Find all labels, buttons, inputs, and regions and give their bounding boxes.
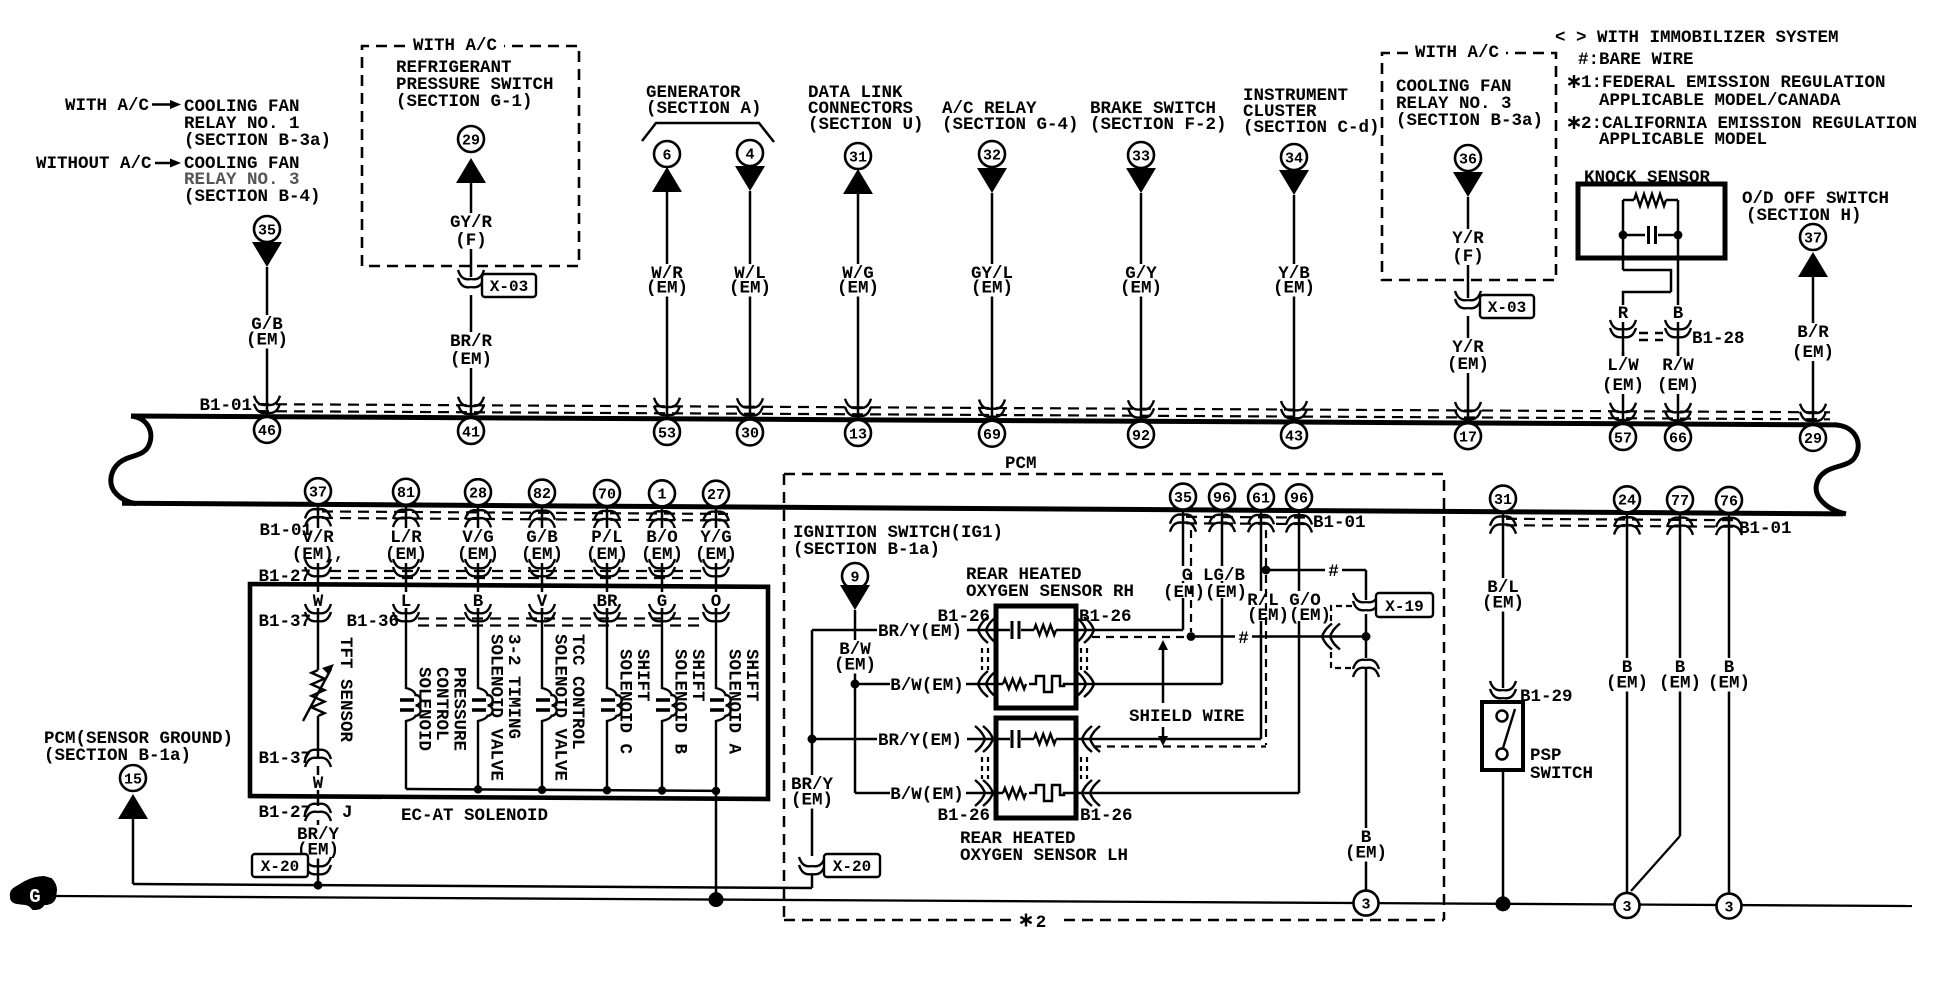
wire ground line bbox=[56, 896, 1912, 906]
svg-text:X-03: X-03 bbox=[490, 278, 528, 296]
splice LH top right bbox=[1082, 726, 1100, 752]
connector box X-20 left bbox=[252, 854, 308, 877]
svg-text:37: 37 bbox=[1804, 230, 1822, 247]
pin circle 27 lower bus bbox=[703, 481, 729, 507]
EC-AT solenoid box bbox=[250, 584, 768, 799]
resistor oxygen LH top bbox=[1034, 734, 1056, 744]
arrow from sensor ground bbox=[118, 794, 148, 819]
junction dot solenoid bus x607 bbox=[603, 786, 611, 794]
wire harness curl left end bbox=[111, 416, 151, 504]
ground symbol G body bbox=[11, 877, 56, 909]
splice below pin 82 bbox=[529, 511, 555, 528]
legend star 1 bbox=[1568, 75, 1579, 88]
wire GY/L A/C relay to bus pin 69 bbox=[991, 193, 994, 420]
splice row B1-27 dashes bbox=[330, 571, 704, 578]
svg-text:(SECTION B-1a): (SECTION B-1a) bbox=[793, 540, 940, 560]
wire RH top to pin G bbox=[1092, 629, 1183, 632]
dashed hook above X-19 splice bbox=[1331, 606, 1352, 621]
svg-text:(EM): (EM) bbox=[1602, 376, 1644, 396]
splice pin 92 bbox=[1128, 400, 1154, 417]
svg-text:EC-AT SOLENOID: EC-AT SOLENOID bbox=[401, 806, 548, 826]
wire into box at 607 bbox=[606, 583, 609, 612]
svg-text:(EM): (EM) bbox=[1606, 674, 1648, 694]
solenoid coil shift solenoid B bbox=[662, 608, 677, 791]
wire BR/Y left vertical bbox=[811, 630, 814, 856]
svg-text:35: 35 bbox=[258, 222, 276, 239]
capacitor oxygen RH bbox=[1011, 621, 1014, 639]
label GY/R (F) bbox=[447, 213, 495, 249]
svg-text:(EM): (EM) bbox=[646, 279, 688, 299]
svg-text:B1-27: B1-27 bbox=[258, 803, 311, 823]
junction dot TFT drain bbox=[314, 881, 323, 890]
solenoid coil 3-2 timing solenoid valve bbox=[478, 608, 493, 789]
wire B/W ignition down bbox=[854, 610, 857, 684]
svg-text:SWITCH: SWITCH bbox=[1530, 764, 1593, 784]
splice X-20 left bbox=[305, 857, 331, 874]
TFT sensor thermistor bbox=[312, 670, 325, 716]
arrow with A/C bbox=[152, 103, 172, 105]
junction dot shield LH bbox=[1262, 566, 1271, 575]
splice B1-37 upper bbox=[305, 604, 331, 621]
svg-text:(F): (F) bbox=[1452, 247, 1484, 267]
splice B1-27 lower bbox=[305, 804, 331, 821]
svg-text:(EM): (EM) bbox=[1447, 355, 1489, 375]
pin circle 28 lower bus bbox=[465, 479, 491, 505]
pin circle 92 bbox=[1128, 421, 1154, 447]
junction dot solenoid bus x662 bbox=[658, 786, 666, 794]
splice RH bottom right bbox=[1076, 671, 1094, 697]
capacitor oxygen LH bbox=[1011, 730, 1014, 748]
splice below pin 76 bbox=[1716, 518, 1742, 535]
connector circle 31 data link bbox=[845, 143, 871, 169]
splice below pin 31 bbox=[1490, 516, 1516, 533]
svg-text:53: 53 bbox=[658, 425, 676, 442]
svg-text:TCC CONTROLSOLENOID VALVE: TCC CONTROLSOLENOID VALVE bbox=[550, 634, 588, 781]
pin circle 24 bbox=[1614, 486, 1640, 512]
splice below pin 70 bbox=[594, 511, 620, 528]
heater square wave RH bbox=[1029, 676, 1066, 692]
wire knock B lead bbox=[1677, 235, 1680, 305]
label B (EM) pin77 bbox=[1656, 658, 1704, 692]
svg-text:B1-36: B1-36 bbox=[346, 612, 399, 632]
svg-text:69: 69 bbox=[983, 427, 1001, 444]
svg-text:15: 15 bbox=[124, 771, 142, 788]
junction dot B/W bbox=[851, 680, 860, 689]
svg-text:(EM): (EM) bbox=[791, 791, 833, 811]
splice below pin 35 x1183 bbox=[1170, 514, 1196, 531]
wire B/W RH row bbox=[855, 683, 890, 686]
terminal letter L bbox=[398, 592, 415, 608]
svg-text:(SECTION U): (SECTION U) bbox=[808, 115, 924, 135]
shield dashed horizontal LH bbox=[1093, 745, 1266, 747]
pin circle 81 lower bus bbox=[393, 479, 419, 505]
junction dot shield RH bbox=[1187, 632, 1196, 641]
pin circle 82 lower bus bbox=[529, 480, 555, 506]
wire GY/R pressure switch bbox=[470, 183, 473, 277]
svg-text:L/W: L/W bbox=[1607, 356, 1639, 376]
svg-text:(EM): (EM) bbox=[1120, 279, 1162, 299]
pin circle 43 bbox=[1281, 422, 1307, 448]
svg-text:B1-37: B1-37 bbox=[258, 749, 311, 769]
splice B1-27 at x542 bbox=[529, 559, 555, 576]
wire main harness bus lower run bbox=[122, 503, 1843, 514]
svg-text:PCM: PCM bbox=[1005, 454, 1037, 474]
PSP switch box bbox=[1482, 702, 1523, 770]
wire bare shield RH to X-19 bbox=[1191, 635, 1235, 638]
label (EM)(EM) upper bbox=[1162, 583, 1248, 598]
splice row B1-36 dashes bbox=[418, 619, 704, 626]
splice below pin 96 x1222 bbox=[1209, 515, 1235, 532]
splice pin 53 bbox=[654, 398, 680, 415]
label V/R (EM) bbox=[289, 528, 348, 563]
pin circle 29 bus bbox=[1800, 425, 1826, 451]
svg-text:(EM)(EM): (EM)(EM) bbox=[1247, 606, 1331, 626]
pin circle 41 bbox=[458, 418, 484, 444]
wire TFT upper bbox=[317, 612, 320, 670]
arrow to instrument cluster bbox=[1279, 170, 1309, 195]
splice pin 57 bbox=[1610, 403, 1636, 420]
svg-text:(EM): (EM) bbox=[1657, 376, 1699, 396]
label P/L (EM) bbox=[583, 528, 631, 563]
dashed link B1-28 bbox=[1639, 333, 1663, 340]
terminal letter B bbox=[470, 592, 487, 608]
svg-text:PSP: PSP bbox=[1530, 746, 1562, 766]
junction dot knock right bbox=[1674, 231, 1683, 240]
svg-text:28: 28 bbox=[469, 486, 487, 503]
splice RH top right bbox=[1076, 617, 1094, 643]
label R/W (EM) bbox=[1654, 356, 1702, 394]
pin circle 1 lower bus bbox=[649, 480, 675, 506]
svg-text:(EM): (EM) bbox=[1792, 343, 1834, 363]
splice RH top left bbox=[978, 617, 996, 643]
label B/R (EM) bbox=[1789, 323, 1837, 361]
splice B1-37 lower bbox=[305, 750, 331, 767]
svg-text:(EM): (EM) bbox=[834, 656, 876, 676]
svg-text:APPLICABLE MODEL: APPLICABLE MODEL bbox=[1599, 130, 1767, 150]
splice X-20 right bbox=[799, 857, 825, 874]
arrow from generator pin 6 bbox=[652, 167, 682, 192]
connector circle 35 bbox=[254, 216, 280, 242]
junction dot PSP ground bbox=[1496, 896, 1511, 911]
label G bbox=[1179, 566, 1195, 581]
svg-text:92: 92 bbox=[1132, 428, 1150, 445]
connector circle 36 fan relay 3 bbox=[1455, 145, 1481, 171]
resistor oxygen RH top bbox=[1034, 625, 1056, 635]
bracket over generator pins bbox=[642, 123, 774, 142]
splice pin 13 bbox=[845, 399, 871, 416]
wire bus B1-01 dashed pair below lower run (left) bbox=[322, 511, 728, 520]
svg-text:B1-28: B1-28 bbox=[1692, 329, 1745, 349]
arrow without A/C bbox=[155, 162, 172, 164]
svg-text:(EM): (EM) bbox=[385, 545, 427, 565]
arrow from data link bbox=[843, 169, 873, 194]
label W/R (EM) bbox=[643, 264, 691, 297]
wire TFT lower bbox=[317, 716, 320, 758]
wire harness curl right end bbox=[1816, 425, 1858, 514]
arrow from O/D off switch bbox=[1798, 252, 1828, 277]
svg-text:3: 3 bbox=[1724, 899, 1733, 916]
svg-text:1:FEDERAL EMISSION REGULATION: 1:FEDERAL EMISSION REGULATION bbox=[1581, 73, 1886, 93]
splice LH bottom right bbox=[1082, 780, 1100, 806]
splice shield horizontal bbox=[1322, 624, 1340, 650]
svg-text:(SECTION A): (SECTION A) bbox=[646, 99, 762, 119]
splice B1-36 at x406 bbox=[393, 604, 419, 621]
PSP switch blade bbox=[1503, 709, 1515, 748]
wire PSP to ground bbox=[1502, 770, 1505, 904]
svg-text:B1-29: B1-29 bbox=[1520, 687, 1573, 707]
svg-text:(EM): (EM) bbox=[695, 545, 737, 565]
splice B1-28 left bbox=[1610, 320, 1636, 337]
shield dashed horizontal RH bbox=[1092, 636, 1186, 638]
connector box X-03 bbox=[482, 274, 536, 297]
wire G pin 35 down bbox=[1182, 510, 1185, 630]
connector box X-19 bbox=[1376, 593, 1433, 617]
wire W/G data link to bus pin 13 bbox=[857, 194, 860, 420]
junction dot knock left bbox=[1619, 231, 1628, 240]
wire B/L from pin 31 bbox=[1502, 512, 1505, 688]
svg-text:OXYGEN SENSOR RH: OXYGEN SENSOR RH bbox=[966, 582, 1134, 602]
pin circle 69 bbox=[979, 421, 1005, 447]
svg-text:Y/R: Y/R bbox=[1452, 229, 1484, 249]
svg-text:B/W(EM): B/W(EM) bbox=[890, 676, 964, 696]
wire shield between splices bbox=[1365, 614, 1368, 658]
splice B1-27 at x478 bbox=[465, 559, 491, 576]
wire R to splice bbox=[1622, 322, 1625, 358]
label B (EM) pin76 bbox=[1705, 658, 1753, 692]
legend star 2 bbox=[1568, 116, 1579, 129]
splice below pin 96 x1299 bbox=[1286, 515, 1312, 532]
svg-text:WITH A/C: WITH A/C bbox=[65, 96, 150, 116]
svg-text:B1-37: B1-37 bbox=[258, 612, 311, 632]
oxygen sensor LH box bbox=[996, 718, 1076, 818]
wire bus B1-01 dashed pair below lower run (middle) bbox=[1186, 517, 1308, 524]
wire B from pin 77 bbox=[1679, 513, 1682, 836]
svg-text:B: B bbox=[1673, 304, 1684, 324]
svg-text:66: 66 bbox=[1669, 431, 1687, 448]
wire L/R from pin 81 to B1-27 bbox=[405, 505, 408, 583]
svg-text:82: 82 bbox=[533, 486, 551, 503]
shield dashed vertical at G wire bbox=[1190, 530, 1192, 632]
label LG/B bbox=[1201, 566, 1247, 581]
wire W/R generator to bus pin 53 bbox=[666, 192, 669, 419]
wire TFT exit bbox=[317, 766, 320, 806]
wire LH bottom to pin G/O bbox=[1092, 792, 1299, 795]
splice X-19 bbox=[1353, 593, 1379, 610]
label Y/R (EM) 2 bbox=[1444, 338, 1492, 373]
svg-text:30: 30 bbox=[741, 426, 759, 443]
wire into box at 478 bbox=[477, 583, 480, 612]
arrow to ignition switch bbox=[840, 585, 870, 610]
splice B1-36 at x478 bbox=[465, 604, 491, 621]
junction dot solenoid bus x716 bbox=[712, 787, 720, 795]
label GY/L (EM) bbox=[968, 264, 1016, 297]
svg-text:(SECTION B-3a): (SECTION B-3a) bbox=[1396, 111, 1543, 131]
svg-text:(SECTION G-4): (SECTION G-4) bbox=[942, 115, 1079, 135]
splice B1-36 at x716 bbox=[703, 604, 729, 621]
connector circle 33 brake switch bbox=[1128, 142, 1154, 168]
svg-text:TFT SENSOR: TFT SENSOR bbox=[335, 637, 355, 743]
splice below pin 27 bbox=[703, 512, 729, 529]
splice RH bottom left bbox=[978, 671, 996, 697]
capacitor knock sensor bbox=[1623, 234, 1645, 237]
shield dashes RH right bbox=[1081, 648, 1087, 670]
wire W/L generator to bus pin 30 bbox=[749, 191, 752, 419]
wire into box at 406 bbox=[405, 583, 408, 612]
label B/O (EM) bbox=[638, 528, 686, 563]
svg-text:(SECTION B-1a): (SECTION B-1a) bbox=[44, 746, 191, 766]
svg-text:BR/Y(EM): BR/Y(EM) bbox=[878, 622, 962, 642]
splice B1-29 bbox=[1490, 681, 1516, 698]
svg-text:(SECTION G-1): (SECTION G-1) bbox=[396, 92, 533, 112]
wire into box at 662 bbox=[661, 583, 664, 612]
svg-text:X-20: X-20 bbox=[261, 858, 299, 876]
oxygen sensor RH box bbox=[996, 606, 1076, 708]
svg-text:2: 2 bbox=[1036, 913, 1047, 933]
wire G/B cooling fan relay to bus pin 46 bbox=[266, 267, 269, 417]
svg-text:1: 1 bbox=[657, 487, 666, 504]
wire B from pin 24 to ground bbox=[1626, 513, 1629, 905]
wire G/B from pin 82 to B1-27 bbox=[541, 506, 544, 583]
svg-text:29: 29 bbox=[1804, 431, 1822, 448]
pin circle 61 at x1261 bbox=[1248, 484, 1274, 510]
pin circle 46 bbox=[254, 417, 280, 443]
shield dashed vertical at R/L wire bbox=[1265, 530, 1267, 745]
terminal letter G bbox=[654, 592, 671, 608]
wire B diagonal join bbox=[1631, 836, 1680, 891]
connector circle 29 pressure switch bbox=[458, 126, 484, 152]
splice B1-27 at x607 bbox=[594, 559, 620, 576]
svg-text:SHIFTSOLENOID C: SHIFTSOLENOID C bbox=[615, 649, 653, 755]
svg-text:36: 36 bbox=[1459, 151, 1477, 168]
svg-text:(EM): (EM) bbox=[1345, 844, 1387, 864]
label BR/R (EM) bbox=[447, 332, 495, 368]
label W/L (EM) bbox=[726, 264, 774, 297]
label B (EM) shield drain bbox=[1342, 828, 1390, 862]
wire Y/G from pin 27 to B1-27 bbox=[715, 507, 718, 583]
shield dashes LH right bbox=[1081, 757, 1087, 779]
splice B1-36 at x662 bbox=[649, 604, 675, 621]
wire G/Y brake switch to bus pin 92 bbox=[1140, 193, 1143, 421]
svg-text:(EM),: (EM), bbox=[292, 545, 345, 565]
svg-text:B1-26: B1-26 bbox=[937, 806, 990, 826]
splice pin 41 bbox=[458, 397, 484, 414]
svg-text:#:BARE WIRE: #:BARE WIRE bbox=[1578, 50, 1694, 70]
label G/B (EM) bbox=[243, 315, 291, 349]
ground circle 3 right bbox=[1717, 894, 1742, 919]
resistor knock sensor bbox=[1634, 194, 1666, 206]
connector box X-20 right bbox=[824, 854, 880, 877]
wire BR/R to bus pin 41 bbox=[470, 295, 473, 418]
dashed hook below X-19 splice bbox=[1331, 652, 1352, 668]
pin circle 76 bbox=[1716, 487, 1742, 513]
PSP switch contact bottom bbox=[1497, 749, 1508, 760]
ground circle 3 shield drain bbox=[1354, 891, 1379, 916]
pin circle 96 at x1299 bbox=[1286, 484, 1312, 510]
svg-text:3: 3 bbox=[1622, 899, 1631, 916]
svg-text:(SECTION B-4): (SECTION B-4) bbox=[184, 187, 321, 207]
wire sensor ground vertical bbox=[132, 818, 135, 884]
svg-text:B1-01: B1-01 bbox=[1313, 513, 1366, 533]
svg-text:32: 32 bbox=[983, 147, 1001, 164]
solenoid coil shift solenoid C bbox=[607, 608, 622, 790]
svg-text:3: 3 bbox=[1361, 896, 1370, 913]
label Y/G (EM) bbox=[692, 528, 740, 563]
wire RH bottom to pin LG/B bbox=[1092, 683, 1222, 686]
svg-text:B/W(EM): B/W(EM) bbox=[890, 785, 964, 805]
splice below pin 1 bbox=[649, 511, 675, 528]
arrow to A/C relay bbox=[977, 168, 1007, 193]
svg-text:41: 41 bbox=[462, 424, 480, 441]
svg-text:SHIFTSOLENOID A: SHIFTSOLENOID A bbox=[724, 649, 762, 755]
label BR/Y (EM) tft bbox=[294, 825, 342, 859]
svg-text:70: 70 bbox=[598, 486, 616, 503]
svg-text:(EM): (EM) bbox=[1659, 674, 1701, 694]
splice X-03 refrigerant bbox=[458, 270, 484, 287]
svg-text:4: 4 bbox=[745, 146, 754, 163]
svg-text:81: 81 bbox=[397, 485, 415, 502]
svg-text:31: 31 bbox=[849, 149, 867, 166]
label L/W (EM) bbox=[1599, 356, 1647, 394]
label BR/Y (EM) vertical bbox=[788, 775, 836, 809]
arrow to generator pin 4 bbox=[735, 166, 765, 191]
svg-text:(EM): (EM) bbox=[729, 279, 771, 299]
knock sensor box bbox=[1578, 184, 1725, 258]
label W/G (EM) bbox=[834, 264, 882, 297]
wire into box at 318 bbox=[317, 583, 320, 612]
wire B/R to bus pin 29 bbox=[1812, 277, 1815, 425]
svg-text:(EM): (EM) bbox=[521, 545, 563, 565]
splice LH bottom left bbox=[975, 780, 993, 806]
svg-text:77: 77 bbox=[1671, 493, 1689, 510]
svg-text:17: 17 bbox=[1459, 429, 1477, 446]
junction dot solenoid bus x478 bbox=[474, 785, 482, 793]
wire sensor ground horizontal bbox=[133, 884, 812, 888]
svg-text:GY/R: GY/R bbox=[450, 213, 493, 233]
svg-text:(SECTION F-2): (SECTION F-2) bbox=[1090, 115, 1227, 135]
svg-text:< > WITH IMMOBILIZER SYSTEM: < > WITH IMMOBILIZER SYSTEM bbox=[1555, 28, 1839, 48]
label Y/B (EM) bbox=[1270, 264, 1318, 297]
wire R/L pin 61 down bbox=[1260, 510, 1263, 739]
svg-text:PRESSURECONTROLSOLENOID: PRESSURECONTROLSOLENOID bbox=[414, 667, 469, 751]
svg-text:(EM)(EM): (EM)(EM) bbox=[1163, 583, 1247, 603]
svg-text:27: 27 bbox=[707, 487, 725, 504]
svg-text:(EM): (EM) bbox=[1708, 674, 1750, 694]
svg-text:#: # bbox=[1238, 629, 1249, 649]
solenoid coil pressure control solenoid bbox=[406, 608, 421, 789]
arrow from pressure switch bbox=[456, 158, 486, 183]
pin circle 17 bbox=[1455, 423, 1481, 449]
shield wire arrow down bbox=[1162, 727, 1165, 738]
terminal letter BR bbox=[593, 592, 621, 608]
svg-text:37: 37 bbox=[309, 485, 327, 502]
label G/B (EM) bbox=[518, 528, 566, 563]
label (EM)(EM) lower bbox=[1246, 606, 1332, 621]
svg-text:31: 31 bbox=[1494, 492, 1512, 509]
connector circle 37 O/D off switch bbox=[1800, 224, 1826, 250]
solenoid coil TCC control solenoid valve bbox=[542, 608, 557, 790]
svg-text:WITHOUT A/C: WITHOUT A/C bbox=[36, 154, 152, 174]
junction dot ground at solenoid A bbox=[709, 892, 724, 907]
wire B/O from pin 1 to B1-27 bbox=[661, 507, 664, 583]
connector circle 4 generator bbox=[737, 140, 763, 166]
svg-text:29: 29 bbox=[462, 132, 480, 149]
svg-text:9: 9 bbox=[850, 569, 859, 586]
pin circle 30 bbox=[737, 419, 763, 445]
wire LG/B pin 96 down bbox=[1221, 510, 1224, 684]
svg-text:(EM): (EM) bbox=[837, 279, 879, 299]
arrow to fan relay 3 bbox=[1453, 172, 1483, 197]
svg-text:24: 24 bbox=[1618, 493, 1636, 510]
